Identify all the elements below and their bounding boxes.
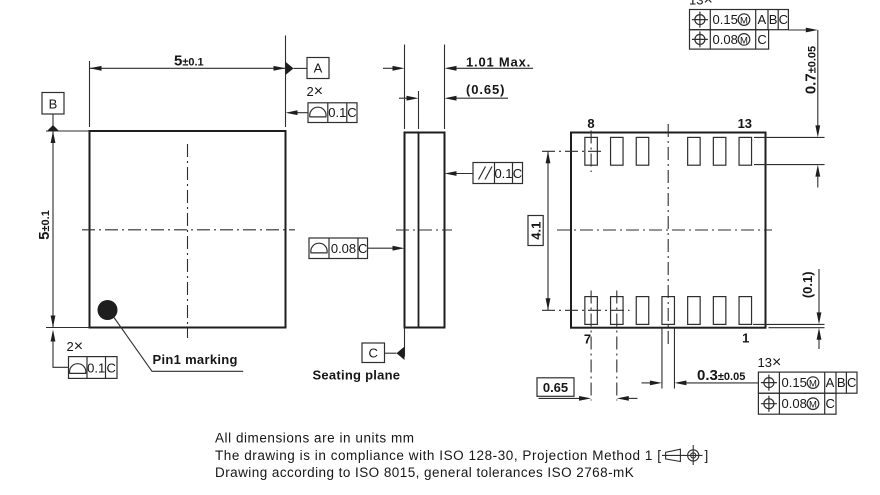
pad pin1 (739, 297, 752, 325)
projection method symbol cone (662, 449, 703, 461)
svg-text:C: C (513, 166, 522, 181)
svg-text:(0.65): (0.65) (466, 82, 505, 97)
feature control frame profile 0.08 C (middle) (309, 238, 405, 259)
svg-text:C: C (369, 346, 378, 361)
svg-text:C: C (107, 361, 116, 376)
pad pin4 (662, 297, 675, 325)
pad pin2 (713, 297, 726, 325)
top view horizontal centerline (82, 229, 295, 231)
top view package outline (90, 131, 286, 328)
side view inner edge line (418, 133, 420, 328)
seating plane label (313, 368, 401, 383)
dimension (0.1) standoff (753, 269, 825, 349)
position frame 0.15 M A B C (top right) (690, 10, 789, 30)
pad pin11 (688, 137, 701, 165)
13x count label (bottom right) (758, 354, 782, 371)
pin number 1 (742, 331, 749, 346)
svg-text:M: M (740, 35, 748, 46)
svg-text:0.15: 0.15 (782, 375, 807, 390)
svg-text:0.08: 0.08 (713, 32, 738, 47)
svg-text:Drawing according to ISO 8015,: Drawing according to ISO 8015, general t… (215, 465, 634, 480)
parallelism frame 0.1 C (445, 163, 523, 184)
pin number 13 (738, 116, 752, 131)
svg-text:13×: 13× (758, 354, 782, 371)
svg-text:C: C (347, 105, 356, 120)
svg-text:The drawing is in compliance w: The drawing is in compliance with ISO 12… (215, 448, 662, 463)
svg-text:0.1: 0.1 (87, 361, 105, 376)
svg-text:B: B (769, 12, 778, 27)
side view outline (405, 133, 445, 328)
svg-text:A: A (826, 375, 835, 390)
svg-text:2×: 2× (307, 83, 324, 100)
dimension 4.1 (pad row pitch) (528, 151, 550, 310)
svg-text:A: A (314, 61, 323, 76)
datum A (286, 58, 330, 79)
svg-text:0.1: 0.1 (494, 166, 512, 181)
bottom view vertical centerline (667, 124, 669, 346)
pad pin3 (688, 297, 701, 325)
pad pin6 (611, 297, 624, 325)
pin7/6 horizontal centerline / 4.1 extension bottom (542, 309, 630, 311)
side view horizontal centerline (396, 229, 452, 231)
svg-text:M: M (740, 16, 748, 27)
pin1 marking leader (114, 318, 243, 372)
feature control frame profile 0.1 C (bottom left) (69, 357, 118, 379)
svg-text:(0.1): (0.1) (800, 271, 815, 298)
13x count label (top right) (689, 0, 713, 9)
position frame 0.08 M C (bottom right) (758, 393, 836, 414)
2x count label (bottom left) (67, 338, 84, 355)
datum B (42, 93, 64, 132)
svg-text:13: 13 (738, 116, 752, 131)
svg-text:M: M (809, 379, 817, 390)
leader from top right frames (788, 28, 817, 33)
bottom view horizontal centerline (557, 229, 772, 231)
svg-text:Seating plane: Seating plane (313, 368, 401, 383)
svg-text:4.1: 4.1 (529, 222, 544, 240)
pin6 vertical centerline (616, 291, 618, 401)
svg-text:C: C (779, 12, 788, 27)
projection method closing bracket (705, 448, 709, 463)
svg-text:13×: 13× (689, 0, 713, 9)
svg-text:All dimensions are in units mm: All dimensions are in units mm (215, 431, 415, 446)
position frame 0.08 M C (top right) (690, 30, 769, 49)
svg-text:7: 7 (584, 332, 591, 347)
svg-text:A: A (757, 12, 766, 27)
note line 3 (215, 465, 634, 480)
svg-text:8: 8 (587, 116, 594, 131)
feature control frame profile 0.1 C (top right) (286, 103, 358, 123)
dimension 0.65 (pad pitch, boxed) (537, 378, 638, 401)
pad pin9 (611, 137, 624, 165)
pin8 horizontal centerline / 4.1 extension top (542, 150, 604, 152)
svg-text:C: C (757, 32, 766, 47)
pin8 vertical centerline (590, 131, 592, 173)
svg-text:B: B (49, 97, 58, 112)
pin4 edge extension lines (662, 328, 675, 389)
top view vertical centerline (187, 144, 189, 338)
svg-text:2×: 2× (67, 338, 84, 355)
pad pin12 (713, 137, 726, 165)
pin7 vertical centerline (590, 291, 592, 401)
position frame 0.15 M A B C (bottom right) (758, 372, 857, 393)
svg-text:0.08: 0.08 (782, 396, 807, 411)
dimension 0.3 +/-0.05 (pad width) (642, 367, 759, 385)
pad pin8 (585, 137, 598, 165)
svg-text:1: 1 (742, 331, 749, 346)
projection method symbol circles (688, 445, 699, 465)
dimension 1.01 Max (side view overall height) (383, 45, 533, 130)
svg-text:Pin1 marking: Pin1 marking (153, 352, 238, 367)
pad pin7 (585, 297, 598, 325)
bottom view package outline (571, 133, 766, 328)
svg-text:B: B (837, 375, 846, 390)
svg-text:M: M (809, 400, 817, 411)
pin1 marking dot (98, 300, 118, 320)
svg-text:0.1: 0.1 (328, 105, 346, 120)
dimension 5 +/-0.1 vertical (top view height) (36, 131, 89, 328)
note line 1 (215, 431, 415, 446)
pin1 marking label (153, 352, 238, 367)
pin number 8 (587, 116, 594, 131)
svg-text:C: C (826, 396, 835, 411)
pad pin13 (739, 137, 752, 165)
svg-text:0.65: 0.65 (543, 380, 568, 395)
pad pin10 (636, 137, 649, 165)
svg-text:C: C (358, 241, 367, 256)
svg-text:0.08: 0.08 (331, 241, 356, 256)
2x count label (top right) (307, 83, 324, 100)
2x leader (bottom left) (51, 330, 69, 368)
svg-text:1.01 Max.: 1.01 Max. (466, 55, 531, 70)
pad pin5 (636, 297, 649, 325)
svg-text:0.15: 0.15 (713, 12, 738, 27)
dimension (0.65) body thickness (399, 82, 508, 129)
seating plane datum C (362, 328, 405, 363)
dimension 5 +/-0.1 horizontal (top view width) (90, 36, 286, 128)
svg-text:]: ] (705, 448, 709, 463)
note line 2 (215, 448, 662, 463)
pin number 7 (584, 332, 591, 347)
svg-text:C: C (847, 375, 856, 390)
dimension 0.7 +/-0.05 (pad length) (754, 30, 825, 188)
